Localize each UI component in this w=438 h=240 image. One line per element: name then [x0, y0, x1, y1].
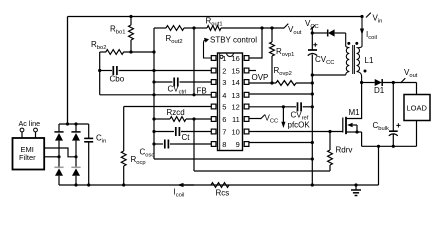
- wire pin9 row: [249, 142, 313, 144]
- wire EMI to bridge (bottom lead): [44, 156, 59, 158]
- wire LOAD bottom: [416, 121, 418, 147]
- wire Vout to LOAD: [416, 83, 418, 95]
- capacitor Coso: [164, 140, 166, 149]
- EMI filter box: [13, 138, 45, 170]
- node Vcc terminal tick: [311, 25, 315, 29]
- wire bottom rail: [59, 184, 379, 186]
- node Rzcd drv junction: [192, 117, 195, 120]
- svg-text:FB: FB: [197, 87, 207, 96]
- current arrow Icoil (bottom, left): [177, 183, 184, 187]
- node pin3 rail junction: [152, 80, 155, 83]
- svg-text:OVP: OVP: [252, 73, 269, 82]
- polarity dot primary bottom: [364, 70, 367, 73]
- op-amp U1 body (16-pin controller): [218, 53, 243, 151]
- wire FB bottom row (pin4 line): [100, 94, 212, 96]
- diode aux (to Vcc): [312, 32, 327, 34]
- resistor Rbo2: [106, 50, 124, 55]
- node bridge AC1: [57, 155, 60, 158]
- resistor Rout1: [194, 27, 207, 29]
- svg-text:8: 8: [222, 140, 226, 149]
- node Vin terminal tick: [366, 13, 371, 18]
- capacitor Cbo: [112, 66, 114, 75]
- wire source bus: [362, 145, 417, 147]
- node Vcc junction: [311, 31, 314, 34]
- svg-text:STBY control: STBY control: [210, 36, 257, 45]
- svg-text:16: 16: [231, 54, 239, 63]
- node Rbo row to left rail: [152, 50, 155, 53]
- wire pin13 row: [249, 93, 313, 95]
- node bus riser junction: [377, 145, 380, 148]
- svg-text:Ct: Ct: [182, 133, 191, 142]
- svg-text:10: 10: [231, 128, 239, 137]
- resistor Rovp2: [276, 81, 296, 86]
- wire FB divider vertical: [193, 28, 195, 95]
- svg-text:15: 15: [231, 67, 239, 76]
- node Cin bottom junction: [87, 183, 90, 186]
- inductor L1 aux winding: [346, 33, 350, 48]
- node Vout junction (right): [392, 81, 395, 84]
- wire left outer vertical: [67, 17, 69, 125]
- node bridge leg2 bottom junction: [74, 183, 77, 186]
- diode bridge leg 1 (upper+lower): [58, 124, 60, 132]
- node pin12 gnd junction: [311, 105, 314, 108]
- node pfcOK junction: [282, 105, 285, 108]
- ground: [354, 183, 357, 186]
- terminal Ac line left: [20, 128, 24, 132]
- wire gnd rail: [311, 55, 313, 186]
- wire top rectified bus: [68, 16, 363, 18]
- wire pin15 stub: [249, 70, 256, 72]
- node gate Rdrv junction: [328, 130, 331, 133]
- resistor Rdrv: [329, 132, 331, 151]
- wire pin12 row (Vref): [249, 106, 296, 108]
- wire pin7 row: [154, 131, 174, 133]
- wire Cbo row (pin2 line): [100, 70, 112, 72]
- wire bottom rail to bus riser: [378, 146, 380, 185]
- terminal Ac line right: [34, 128, 38, 132]
- inductor L1 primary winding: [358, 46, 362, 48]
- node Vout terminal tick (top): [284, 24, 289, 29]
- svg-text:4: 4: [222, 91, 226, 100]
- svg-text:11: 11: [232, 115, 240, 124]
- svg-text:2: 2: [222, 67, 226, 76]
- capacitor Ct: [175, 127, 177, 136]
- svg-text:12: 12: [231, 103, 239, 112]
- node pin9 gnd junction: [311, 141, 314, 144]
- node FB row divider junction: [192, 93, 195, 96]
- wire pin5 row: [124, 106, 212, 108]
- node M1 source/body junction: [355, 130, 358, 133]
- node Vcc terminal tick (pin11): [261, 115, 265, 119]
- node Vin junction: [360, 15, 363, 18]
- diode D1: [362, 82, 375, 84]
- svg-text:Rdrv: Rdrv: [336, 146, 353, 155]
- wire Cbo loop left vertical: [99, 52, 101, 95]
- node FB row rail junction: [152, 93, 155, 96]
- node Vout-line Rovp1 junction: [270, 26, 273, 29]
- node OVP junction: [270, 81, 273, 84]
- wire pin16 branch: [249, 28, 262, 58]
- node Cbo row to left rail: [152, 69, 155, 72]
- svg-text:M1: M1: [349, 108, 361, 117]
- wire bridge top rail: [59, 123, 89, 125]
- wire pin1 to STBY control: [204, 40, 212, 58]
- diode bridge leg 2 (upper+lower): [75, 124, 77, 132]
- capacitor Cin: [88, 124, 90, 138]
- node bridge top / leg2: [74, 122, 77, 125]
- node Coso rail junction: [152, 142, 155, 145]
- svg-text:Rcs: Rcs: [216, 189, 230, 198]
- svg-text:Ac line: Ac line: [19, 119, 41, 128]
- svg-text:7: 7: [222, 128, 226, 137]
- wire Rdrv return to Rzcd: [194, 170, 330, 172]
- node drain junction: [360, 81, 363, 84]
- wire pin11 stub: [249, 118, 261, 120]
- capacitor CVctrl: [173, 78, 175, 87]
- svg-text:Filter: Filter: [19, 153, 36, 162]
- node Ct rail junction: [152, 130, 155, 133]
- capacitor Cbulk: [392, 83, 394, 131]
- node gnd rail bottom junction: [311, 183, 314, 186]
- wire Icoil vertical (Vin to L1): [361, 17, 363, 47]
- svg-text:1: 1: [222, 54, 226, 63]
- current arrow Icoil (down): [360, 29, 364, 36]
- svg-text:Rzcd: Rzcd: [167, 108, 185, 117]
- wire Rbo row: [100, 51, 106, 53]
- wire Vcc stub: [311, 27, 313, 50]
- node bridge top / outer vertical: [66, 122, 69, 125]
- polarity dot primary top: [355, 42, 358, 45]
- node Rovp2 gnd-rail junction: [311, 81, 314, 84]
- wire pin3 row: [154, 81, 173, 83]
- wire OVP row (pin14): [249, 82, 276, 84]
- signal arrow pfcOK: [282, 107, 284, 124]
- svg-text:Cbo: Cbo: [110, 75, 125, 84]
- wire aux return row: [312, 74, 345, 76]
- wire left compensation rail: [153, 28, 155, 159]
- resistor Rocp: [123, 107, 125, 152]
- node Rbo1/Rbo2 junction: [129, 50, 132, 53]
- LOAD box: [404, 95, 430, 121]
- svg-text:5: 5: [222, 103, 226, 112]
- node Rzcd rail junction: [152, 117, 155, 120]
- pin pads U1: [211, 56, 216, 61]
- node rail-to-gnd junction: [311, 157, 314, 160]
- svg-text:L1: L1: [365, 56, 374, 65]
- transistor M1: [346, 83, 362, 119]
- svg-text:LOAD: LOAD: [407, 104, 428, 113]
- resistor Rbo1: [130, 17, 132, 26]
- resistor Rout2: [154, 27, 166, 29]
- node bridge AC2: [74, 155, 77, 158]
- capacitor CVcc (polarized): [308, 49, 317, 51]
- node aux return junction: [311, 73, 314, 76]
- svg-text:9: 9: [236, 140, 240, 149]
- svg-text:6: 6: [222, 115, 226, 124]
- node pin13 gnd junction: [311, 92, 314, 95]
- svg-text:D1: D1: [374, 86, 385, 95]
- resistor Rovp1: [271, 28, 273, 42]
- wire EMI to bridge (top lead): [44, 148, 76, 157]
- node Vout terminal tick (right): [401, 78, 406, 83]
- wire pin10 gate row: [249, 131, 343, 133]
- svg-text:pfcOK: pfcOK: [288, 121, 311, 130]
- transformer core: [352, 45, 354, 74]
- node Cbulk bus junction: [392, 145, 395, 148]
- capacitor CVref: [297, 102, 299, 111]
- resistor Rzcd: [154, 118, 170, 120]
- resistor Rcs: [211, 183, 229, 188]
- polarity dot aux: [347, 42, 350, 45]
- node Cbo loop left junction: [98, 69, 101, 72]
- node Rocp bottom junction: [122, 183, 125, 186]
- svg-text:13: 13: [231, 91, 239, 100]
- svg-text:3: 3: [222, 78, 226, 87]
- node Vout-line pin16 junction: [260, 26, 263, 29]
- node Rbo1 top junction: [129, 15, 132, 18]
- node Rout junction: [192, 26, 195, 29]
- svg-text:14: 14: [231, 78, 239, 87]
- wire pin8 row: [154, 143, 163, 145]
